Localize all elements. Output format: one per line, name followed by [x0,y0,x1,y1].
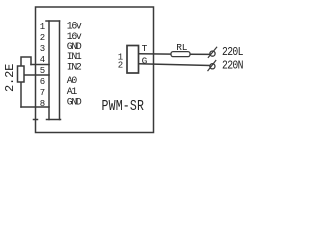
wire T net after RL [190,53,210,55]
svg-text:4: 4 [40,55,45,65]
svg-text:PWM-SR: PWM-SR [102,99,145,116]
lamp 220N circle [210,64,215,69]
svg-text:GND: GND [67,96,82,107]
svg-text:RL: RL [176,42,187,53]
svg-text:G: G [142,56,148,67]
wire pin8 GND rung [21,106,49,108]
lamp 220L circle [210,51,215,56]
svg-text:5: 5 [40,66,45,76]
resistor R1 body 2.2E [18,66,25,82]
IC outline U1 PWM-SR [36,7,154,133]
svg-text:A1: A1 [67,86,78,97]
svg-text:IN2: IN2 [67,61,82,72]
svg-text:2.2E: 2.2E [3,64,17,92]
connector J1 body [127,46,139,74]
svg-text:6: 6 [40,77,45,87]
pin strip left rail [48,21,50,120]
lamp 220N slash [208,61,216,71]
wire resistor R1 top lead [21,57,31,66]
pin strip right rail [59,21,61,120]
svg-text:A0: A0 [67,75,78,86]
lamp 220L slash [208,47,216,57]
svg-text:3: 3 [40,44,45,54]
svg-text:220L: 220L [222,46,243,59]
svg-text:16v: 16v [67,20,82,31]
svg-text:220N: 220N [222,59,243,72]
svg-text:T: T [142,43,148,54]
svg-text:7: 7 [40,88,45,98]
svg-text:2: 2 [118,60,123,70]
svg-text:2: 2 [40,33,45,43]
pin strip bottom edge [47,119,61,121]
wire G net [139,64,210,66]
svg-text:8: 8 [40,99,45,109]
wire pin4 IN1 rung [31,64,49,66]
wire resistor R1 bottom lead [20,82,22,107]
wire T net [139,53,171,55]
tick on IC edge at strip bottom level [34,119,38,121]
wire pin5 IN2 rung [24,74,49,76]
svg-text:1: 1 [40,22,45,32]
svg-text:IN1: IN1 [67,51,82,62]
pin strip top edge [46,20,60,22]
resistor RL body [171,52,190,57]
